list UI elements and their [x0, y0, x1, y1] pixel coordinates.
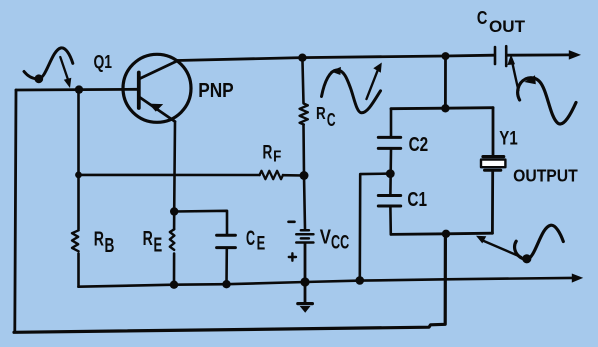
transistor Q1 — [123, 54, 191, 122]
ground — [298, 304, 313, 313]
svg-text:E: E — [154, 234, 163, 256]
wire: mid tap line — [360, 174, 391, 281]
node: mid horizontal junction — [441, 104, 449, 112]
label: battery plus sign — [289, 253, 296, 260]
waveform annotation: input sine top-left — [24, 48, 73, 88]
wire: crystal bottom lead — [491, 172, 494, 234]
svg-text:F: F — [273, 148, 281, 165]
wire: RC bottom lead to RF junction and battery — [304, 125, 306, 229]
svg-text:C: C — [327, 109, 336, 130]
node: bottom branch junction — [442, 230, 450, 238]
wire: emitter vertical — [173, 122, 176, 212]
label: battery minus sign — [289, 221, 295, 224]
wire: RB branch upper — [77, 90, 80, 229]
svg-text:V: V — [320, 226, 332, 248]
svg-text:C: C — [477, 7, 488, 28]
wire: RC top lead — [302, 58, 303, 103]
wire: CE top lead — [174, 211, 227, 234]
node: CE bottom junction — [222, 280, 230, 288]
resistor RE — [170, 229, 175, 250]
svg-text:C1: C1 — [407, 188, 427, 211]
svg-text:R: R — [143, 228, 154, 250]
wire: top rail output segment after COUT — [508, 54, 570, 57]
wire: bottom feedback rail — [14, 234, 445, 332]
wire: C2-C1 middle segment — [389, 150, 392, 194]
wire: C2/C1 top lead — [390, 109, 393, 136]
wire: RF feedback line — [79, 174, 260, 177]
wire: battery bottom lead — [304, 244, 307, 282]
arrow: top output arrowhead — [569, 50, 581, 60]
svg-text:E: E — [257, 232, 266, 254]
wire: top collector rail — [177, 55, 494, 60]
wire: right branch vertical from rail — [444, 56, 447, 108]
svg-text:PNP: PNP — [198, 79, 234, 102]
svg-text:Y1: Y1 — [499, 128, 518, 149]
svg-text:Q1: Q1 — [94, 52, 113, 72]
capacitor CE — [217, 235, 236, 247]
node: RF/collector junction — [300, 171, 309, 180]
arrow: bottom rail arrowhead — [572, 274, 583, 283]
wire: mid horizontal line — [391, 108, 493, 109]
wire: left vertical rail — [15, 90, 16, 332]
svg-text:OUTPUT: OUTPUT — [513, 165, 578, 185]
node: C1/C2 midpoint — [386, 169, 395, 178]
capacitor C1 — [378, 196, 400, 207]
waveform annotation: output sine right of COUT — [507, 54, 576, 124]
svg-text:B: B — [105, 235, 115, 257]
wire: base wire — [16, 88, 137, 91]
resistor RF — [260, 171, 283, 179]
resistor RB — [72, 230, 79, 251]
svg-text:R: R — [316, 103, 326, 123]
node: top branch junction — [442, 52, 450, 60]
node: emitter/CE tee — [170, 207, 178, 215]
node: base junction — [75, 85, 83, 93]
resistor RC — [300, 104, 308, 125]
node: RC top junction — [298, 54, 306, 62]
svg-text:R: R — [263, 141, 273, 163]
waveform annotation: output sine bottom-right — [476, 225, 563, 263]
capacitor COUT — [495, 46, 506, 66]
crystal Y1 — [481, 157, 505, 171]
svg-text:R: R — [94, 229, 105, 251]
svg-text:C: C — [246, 227, 255, 250]
wire: RE lower lead — [173, 254, 176, 285]
wire: RF right lead — [283, 174, 304, 177]
svg-text:C2: C2 — [409, 134, 429, 156]
battery VCC — [296, 230, 313, 242]
wire: bottom branch horizontal — [391, 233, 492, 234]
wire: bottom node line with output arrow — [79, 278, 573, 287]
wire: RB branch lower — [77, 254, 80, 287]
node: RE bottom junction — [170, 281, 178, 289]
svg-text:CC: CC — [331, 233, 349, 254]
node: ground junction — [300, 277, 309, 286]
wire: CE bottom lead — [225, 249, 228, 284]
capacitor C2 — [378, 137, 400, 148]
wire: ground lead — [304, 282, 307, 303]
waveform annotation: collector sine mid — [322, 63, 382, 113]
svg-text:OUT: OUT — [489, 17, 526, 36]
wire: C1 bottom lead — [389, 208, 392, 235]
node: RF tee on RB branch — [75, 172, 82, 179]
wire: RE upper lead — [173, 212, 176, 230]
node: tap bottom junction — [356, 276, 365, 285]
wire: crystal top lead — [492, 108, 495, 155]
